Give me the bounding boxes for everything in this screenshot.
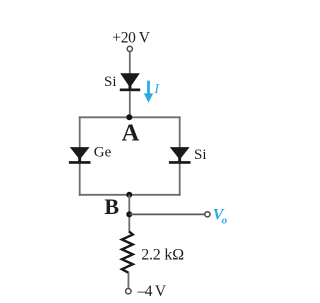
terminal +20V (open circle) [127,46,132,51]
wire top of bridge rectangle [79,116,181,118]
diode D3 Si (triangle + cathode bar) [169,147,191,164]
wire diode D1 to node A [129,91,131,117]
terminal Vo (open circle) [205,212,210,217]
wire left branch vertical [79,116,81,195]
svg-text:2.2 kΩ: 2.2 kΩ [141,246,184,263]
node A junction dot [126,114,132,120]
svg-text:–4 V: –4 V [137,283,167,300]
svg-text:B: B [104,194,119,219]
svg-text:A: A [122,119,140,146]
svg-text:Ge: Ge [94,144,112,160]
node B junction dot [126,192,132,198]
svg-text:Si: Si [104,74,117,90]
wire output to Vo terminal [129,213,204,215]
diode D1 Si (triangle + cathode bar) [120,73,140,91]
wire node B down to resistor [128,195,130,232]
wire resistor to -4V terminal [127,273,129,289]
wire right branch vertical [179,116,181,195]
diode D2 Ge (triangle + cathode bar) [69,147,91,164]
resistor R1 zigzag [122,231,133,272]
terminal -4V (open circle) [126,289,131,294]
wire bottom of bridge rectangle [79,194,181,196]
wire from +20V terminal to diode D1 [129,52,131,74]
svg-text:o: o [222,214,228,226]
svg-text:Si: Si [194,147,207,163]
node dot at output tap [126,211,132,217]
svg-text:+20 V: +20 V [112,29,150,46]
current arrow I (blue) [144,81,153,103]
svg-text:I: I [153,82,160,97]
label Vo (blue italic) [213,206,228,226]
